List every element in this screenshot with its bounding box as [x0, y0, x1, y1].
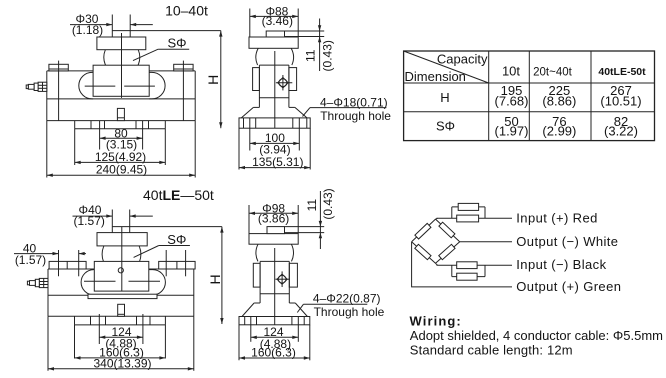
svg-text:SΦ: SΦ: [436, 119, 455, 134]
svg-text:Capacity: Capacity: [437, 52, 488, 67]
svg-text:H: H: [205, 75, 221, 85]
svg-text:(1.97): (1.97): [495, 124, 529, 139]
svg-text:Input (+) Red: Input (+) Red: [516, 210, 597, 225]
svg-text:240(9.45): 240(9.45): [96, 163, 147, 177]
svg-text:20t~40t: 20t~40t: [533, 66, 572, 78]
svg-text:Standard cable length: 12m: Standard cable length: 12m: [410, 343, 573, 358]
svg-text:(1.18): (1.18): [72, 23, 103, 37]
svg-text:40tLE—50t: 40tLE—50t: [143, 187, 214, 203]
svg-text:(2.99): (2.99): [542, 124, 576, 139]
svg-text:Through hole: Through hole: [314, 305, 385, 319]
svg-text:(0.43): (0.43): [321, 40, 335, 71]
svg-text:Output (−) White: Output (−) White: [516, 234, 618, 249]
svg-text:(8.86): (8.86): [542, 93, 576, 108]
svg-text:SΦ: SΦ: [168, 36, 187, 51]
svg-text:11: 11: [304, 49, 318, 62]
svg-text:10–40t: 10–40t: [165, 2, 208, 18]
svg-text:(1.57): (1.57): [15, 253, 46, 267]
svg-text:40tLE-50t: 40tLE-50t: [598, 66, 646, 78]
svg-text:(1.57): (1.57): [74, 214, 105, 228]
svg-text:Wiring:: Wiring:: [410, 314, 462, 329]
svg-text:Dimension: Dimension: [405, 69, 466, 84]
svg-text:(3.86): (3.86): [258, 212, 289, 226]
svg-text:Input (−) Black: Input (−) Black: [516, 257, 606, 272]
svg-text:(0.43): (0.43): [321, 188, 335, 219]
svg-text:SΦ: SΦ: [167, 232, 186, 247]
svg-text:135(5.31): 135(5.31): [252, 155, 303, 169]
svg-text:Output (+) Green: Output (+) Green: [516, 279, 621, 294]
svg-text:11: 11: [305, 199, 319, 212]
svg-text:(3.46): (3.46): [262, 14, 293, 28]
svg-text:Through hole: Through hole: [320, 109, 391, 123]
svg-text:(3.22): (3.22): [604, 124, 638, 139]
svg-text:Adopt shielded, 4 conductor ca: Adopt shielded, 4 conductor cable: Φ5.5m…: [410, 328, 663, 343]
svg-text:340(13.39): 340(13.39): [93, 356, 151, 370]
svg-text:(7.68): (7.68): [495, 93, 529, 108]
svg-text:H: H: [440, 90, 449, 105]
svg-text:H: H: [207, 274, 223, 284]
svg-text:10t: 10t: [502, 63, 520, 78]
svg-text:(10.51): (10.51): [600, 93, 641, 108]
svg-text:4–Φ22(0.87): 4–Φ22(0.87): [313, 292, 381, 306]
